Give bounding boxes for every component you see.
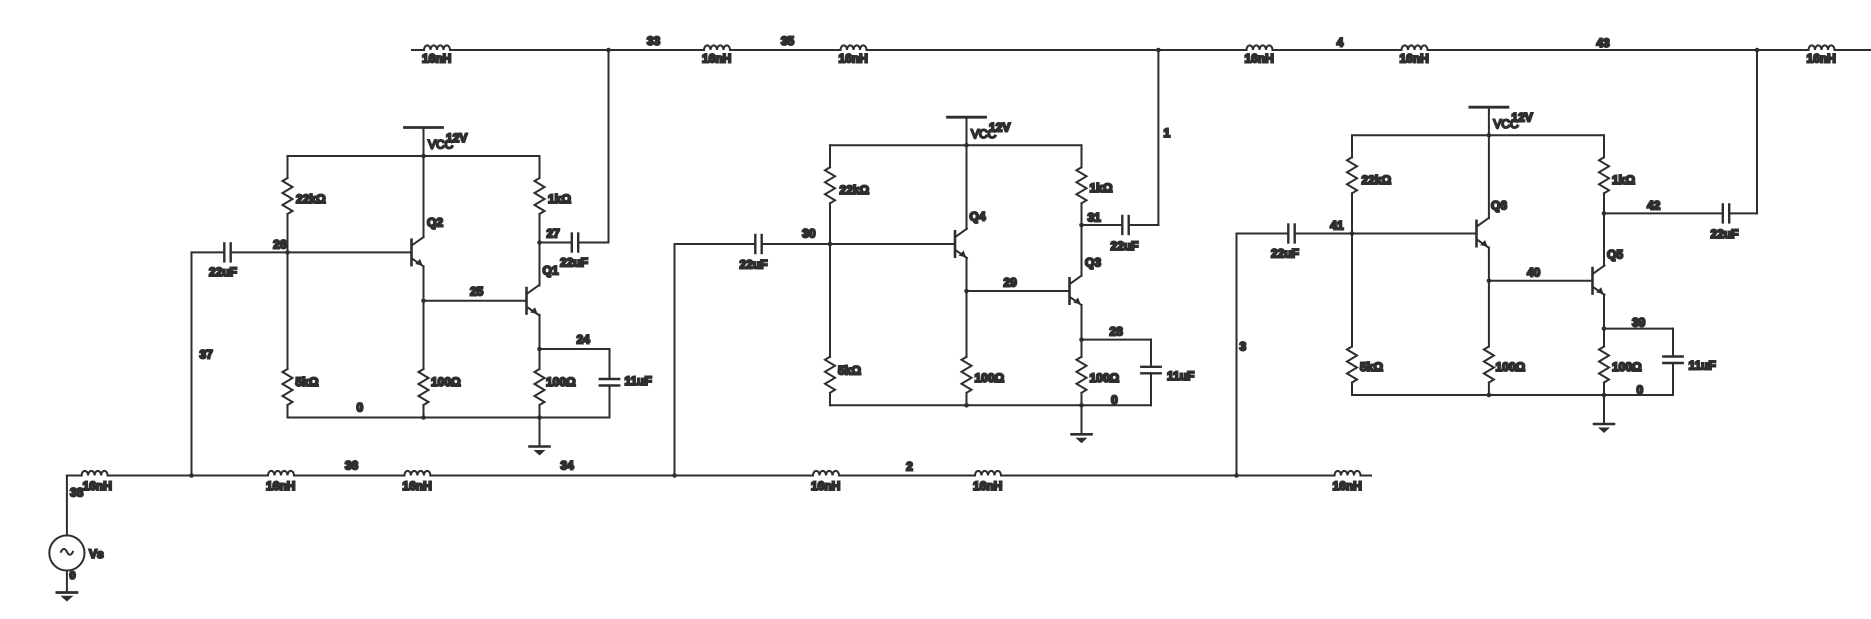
resistor 22kΩ bias stage 3 [1347,135,1392,233]
inductor L9 16nH (bottom line) [402,471,431,493]
wire node 24 stage 1 [537,347,609,352]
svg-text:26: 26 [273,238,287,252]
resistor 5kΩ bias stage 2 [825,244,861,405]
inductor L7 16nH (bottom line) [82,471,112,493]
svg-text:5kΩ: 5kΩ [296,375,319,389]
wire VCC rail stage 2 [830,143,1082,148]
svg-text:Q2: Q2 [427,216,443,230]
svg-text:22kΩ: 22kΩ [840,183,870,197]
svg-text:100Ω: 100Ω [431,375,461,389]
wire ground rail (node 0) stage 2 [830,403,1151,408]
node 27 label [547,227,561,241]
resistor 100Ω emitter degeneration stage 1 [535,349,577,418]
svg-text:16nH: 16nH [402,479,431,493]
node 24 label [577,333,591,347]
svg-text:41: 41 [1330,219,1344,233]
svg-text:0: 0 [1637,383,1644,397]
svg-text:37: 37 [200,348,214,362]
ground stage 3 [1594,395,1614,433]
wire VCC rail stage 1 [288,154,540,159]
wire node 39 stage 3 [1602,326,1673,331]
capacitor 22uF input coupling stage 3 [1237,225,1477,261]
svg-text:34: 34 [560,459,574,473]
svg-text:1: 1 [1164,126,1171,140]
svg-text:28: 28 [1110,325,1124,339]
node 34 label [560,459,574,473]
label VCC stage 1 [428,138,454,152]
capacitor 22uF input coupling stage 2 [675,235,956,272]
node 41 label [1330,219,1344,233]
capacitor 11uF bypass stage 1 [600,349,652,418]
svg-text:16nH: 16nH [1807,52,1836,66]
node 0 label stage 2 [1111,393,1118,407]
node 0 label (at Vs) [70,570,76,582]
resistor 1kΩ collector load stage 2 [1077,145,1113,225]
node 26 label [273,238,287,252]
svg-text:22uF: 22uF [1271,247,1299,261]
svg-text:31: 31 [1088,211,1102,225]
wire bottom line segment 6 [1001,475,1335,477]
node 35 label [781,34,795,48]
VCC supply stage 3 (12V) [1470,107,1508,135]
svg-text:100Ω: 100Ω [1496,360,1526,374]
svg-text:22uF: 22uF [560,256,588,270]
wire output riser stage 1 [606,48,611,243]
inductor L8 16nH (bottom line) [266,471,295,493]
node 3 label [1240,340,1247,354]
svg-text:Q4: Q4 [970,210,986,224]
svg-text:Q6: Q6 [1491,199,1507,213]
svg-text:12V: 12V [446,131,467,145]
node 30 label [802,227,816,241]
transistor Q2 (emitter follower) stage 1 [412,156,444,301]
svg-text:1kΩ: 1kΩ [1090,181,1113,195]
node 39 label [1632,316,1646,330]
wire bottom line segment 2 [108,475,268,477]
capacitor 22uF input coupling stage 1 [192,243,412,279]
wire top line segment 6 [1428,49,1809,51]
ground stage 2 [1072,405,1092,443]
node divider junction stage 3 [1350,231,1355,236]
svg-text:Q3: Q3 [1085,256,1101,270]
svg-text:22uF: 22uF [1711,227,1739,241]
capacitor 22uF output coupling stage 3 [1604,204,1757,241]
node 4 label [1337,36,1344,50]
resistor 100Ω emitter (mid) stage 2 [962,291,1005,405]
node 1 label [1164,126,1171,140]
node 36 label [345,459,359,473]
resistor 1kΩ collector load stage 3 [1599,135,1635,213]
label VCC stage 3 [1493,117,1519,131]
node 31 junction [1079,223,1084,228]
resistor 22kΩ bias stage 2 [825,145,870,244]
ground stage 1 [530,418,550,456]
wire ground rail (node 0) stage 3 [1352,393,1673,398]
svg-text:35: 35 [781,34,795,48]
wire top line segment 5 [1273,49,1402,51]
svg-text:16nH: 16nH [422,52,451,66]
svg-text:16nH: 16nH [266,479,295,493]
wire input riser stage 2 [672,244,677,478]
resistor 1kΩ collector load stage 1 [535,156,572,243]
svg-text:100Ω: 100Ω [975,371,1005,385]
inductor L4 16nH (top line) [1245,45,1274,65]
node divider junction stage 1 [285,250,290,255]
wire bottom line segment 1 [67,475,82,477]
voltage source Vs [49,476,84,591]
wire top line segment 7 [1835,49,1871,51]
svg-text:5kΩ: 5kΩ [1360,360,1383,374]
svg-text:0: 0 [357,401,364,415]
svg-text:11uF: 11uF [1167,369,1194,383]
svg-text:100Ω: 100Ω [546,375,576,389]
wire VCC rail stage 3 [1352,133,1604,138]
inductor L3 16nH (top line) [839,45,868,65]
wire bottom line segment 3 [294,475,404,477]
wire node 28 stage 2 [1079,337,1151,342]
wire bottom line segment 7 [1361,475,1372,477]
inductor L10 16nH (bottom line) [811,471,840,493]
node 2 label [906,460,913,474]
svg-text:36: 36 [345,459,359,473]
resistor 5kΩ bias stage 3 [1347,234,1383,396]
svg-text:Q1: Q1 [543,264,559,278]
resistor 100Ω emitter (mid) stage 1 [419,301,462,418]
svg-text:24: 24 [577,333,591,347]
svg-text:Vs: Vs [89,547,104,561]
node 43 label [1596,36,1610,50]
svg-text:22kΩ: 22kΩ [296,192,326,206]
node 40 label [1527,266,1541,280]
svg-text:39: 39 [1632,316,1646,330]
svg-text:33: 33 [647,34,661,48]
resistor 22kΩ bias stage 1 [283,156,327,252]
node 0 label stage 3 [1637,383,1644,397]
svg-text:0: 0 [70,570,76,582]
node 42 label [1647,199,1661,213]
svg-text:16nH: 16nH [973,479,1002,493]
svg-text:22kΩ: 22kΩ [1362,173,1392,187]
inductor L6 16nH (top line) [1807,45,1836,65]
inductor L11 16nH (bottom line) [973,471,1002,493]
wire bottom line segment 4 [430,475,813,477]
svg-text:43: 43 [1596,36,1610,50]
resistor 5kΩ bias stage 1 [283,252,319,417]
transistor Q1 (common emitter) stage 1 [527,243,559,350]
label 12V stage 1 [446,131,467,145]
svg-text:0: 0 [1111,393,1118,407]
wire output riser stage 2 [1156,48,1161,225]
svg-text:1kΩ: 1kΩ [548,192,571,206]
transistor Q4 (emitter follower) stage 2 [955,145,986,291]
svg-text:16nH: 16nH [702,52,731,66]
node 25 label [470,285,484,299]
svg-text:16nH: 16nH [83,479,112,493]
svg-text:38: 38 [70,486,84,500]
wire top line segment 3 [730,49,841,51]
resistor 100Ω emitter degeneration stage 3 [1599,329,1642,395]
svg-text:16nH: 16nH [1245,52,1274,66]
svg-text:100Ω: 100Ω [1090,371,1120,385]
label Vs [89,547,104,561]
capacitor 22uF output coupling stage 1 [540,234,609,270]
node 31 label [1088,211,1102,225]
wire output riser stage 3 [1755,48,1760,214]
label VCC stage 2 [971,127,997,141]
svg-text:29: 29 [1004,276,1018,290]
svg-text:22uF: 22uF [209,265,237,279]
svg-text:2: 2 [906,460,913,474]
resistor 100Ω emitter (mid) stage 3 [1484,281,1526,395]
svg-text:16nH: 16nH [1333,479,1362,493]
transistor Q5 (common emitter) stage 3 [1593,213,1624,328]
capacitor 22uF output coupling stage 2 [1082,216,1159,253]
resistor 100Ω emitter degeneration stage 2 [1077,340,1120,406]
svg-text:40: 40 [1527,266,1541,280]
wire node 25 stage 1 [421,299,526,304]
inductor L12 16nH (bottom line) [1333,471,1362,493]
inductor L5 16nH (top line) [1400,45,1429,65]
label 12V stage 2 [989,121,1010,135]
svg-text:5kΩ: 5kΩ [838,364,861,378]
transistor Q3 (common emitter) stage 2 [1070,225,1102,340]
node divider junction stage 2 [828,242,833,247]
svg-text:16nH: 16nH [839,52,868,66]
svg-text:22uF: 22uF [1111,239,1139,253]
wire top line segment 4 [867,49,1247,51]
inductor L1 16nH (top line) [422,45,451,65]
label 12V stage 3 [1511,111,1532,125]
svg-text:100Ω: 100Ω [1612,360,1642,374]
VCC supply stage 1 (12V) [405,128,443,157]
svg-text:Q5: Q5 [1607,248,1623,262]
node 28 label [1110,325,1124,339]
svg-text:16nH: 16nH [1400,52,1429,66]
svg-text:12V: 12V [989,121,1010,135]
node 33 label [647,34,661,48]
svg-text:12V: 12V [1511,111,1532,125]
wire ground rail (node 0) stage 1 [288,415,610,420]
svg-text:4: 4 [1337,36,1344,50]
svg-text:25: 25 [470,285,484,299]
svg-text:42: 42 [1647,199,1661,213]
svg-text:16nH: 16nH [811,479,840,493]
ground (below Vs) [57,593,77,602]
inductor L2 16nH (top line) [702,45,731,65]
VCC supply stage 2 (12V) [948,117,986,145]
capacitor 11uF bypass stage 3 [1663,329,1716,395]
svg-text:11uF: 11uF [1689,359,1716,373]
svg-text:22uF: 22uF [740,258,768,272]
node 0 label stage 1 [357,401,364,415]
transistor Q6 (emitter follower) stage 3 [1477,135,1508,280]
capacitor 11uF bypass stage 2 [1141,340,1194,406]
svg-text:3: 3 [1240,340,1247,354]
svg-text:11uF: 11uF [625,374,652,388]
node 42 junction [1602,211,1607,216]
wire bottom line segment 5 [839,475,975,477]
svg-text:27: 27 [547,227,561,241]
node 29 label [1004,276,1018,290]
wire node 29 stage 2 [964,289,1069,294]
svg-text:30: 30 [802,227,816,241]
wire top line segment 1 [412,49,424,51]
node 27 junction [537,240,542,245]
svg-text:1kΩ: 1kΩ [1612,173,1635,187]
node 38 label [70,486,84,500]
wire node 40 stage 3 [1487,279,1593,284]
wire top line segment 2 [450,49,704,51]
wire input riser stage 3 [1234,234,1239,478]
wire input riser stage 1 [189,252,194,477]
node 37 label [200,348,214,362]
